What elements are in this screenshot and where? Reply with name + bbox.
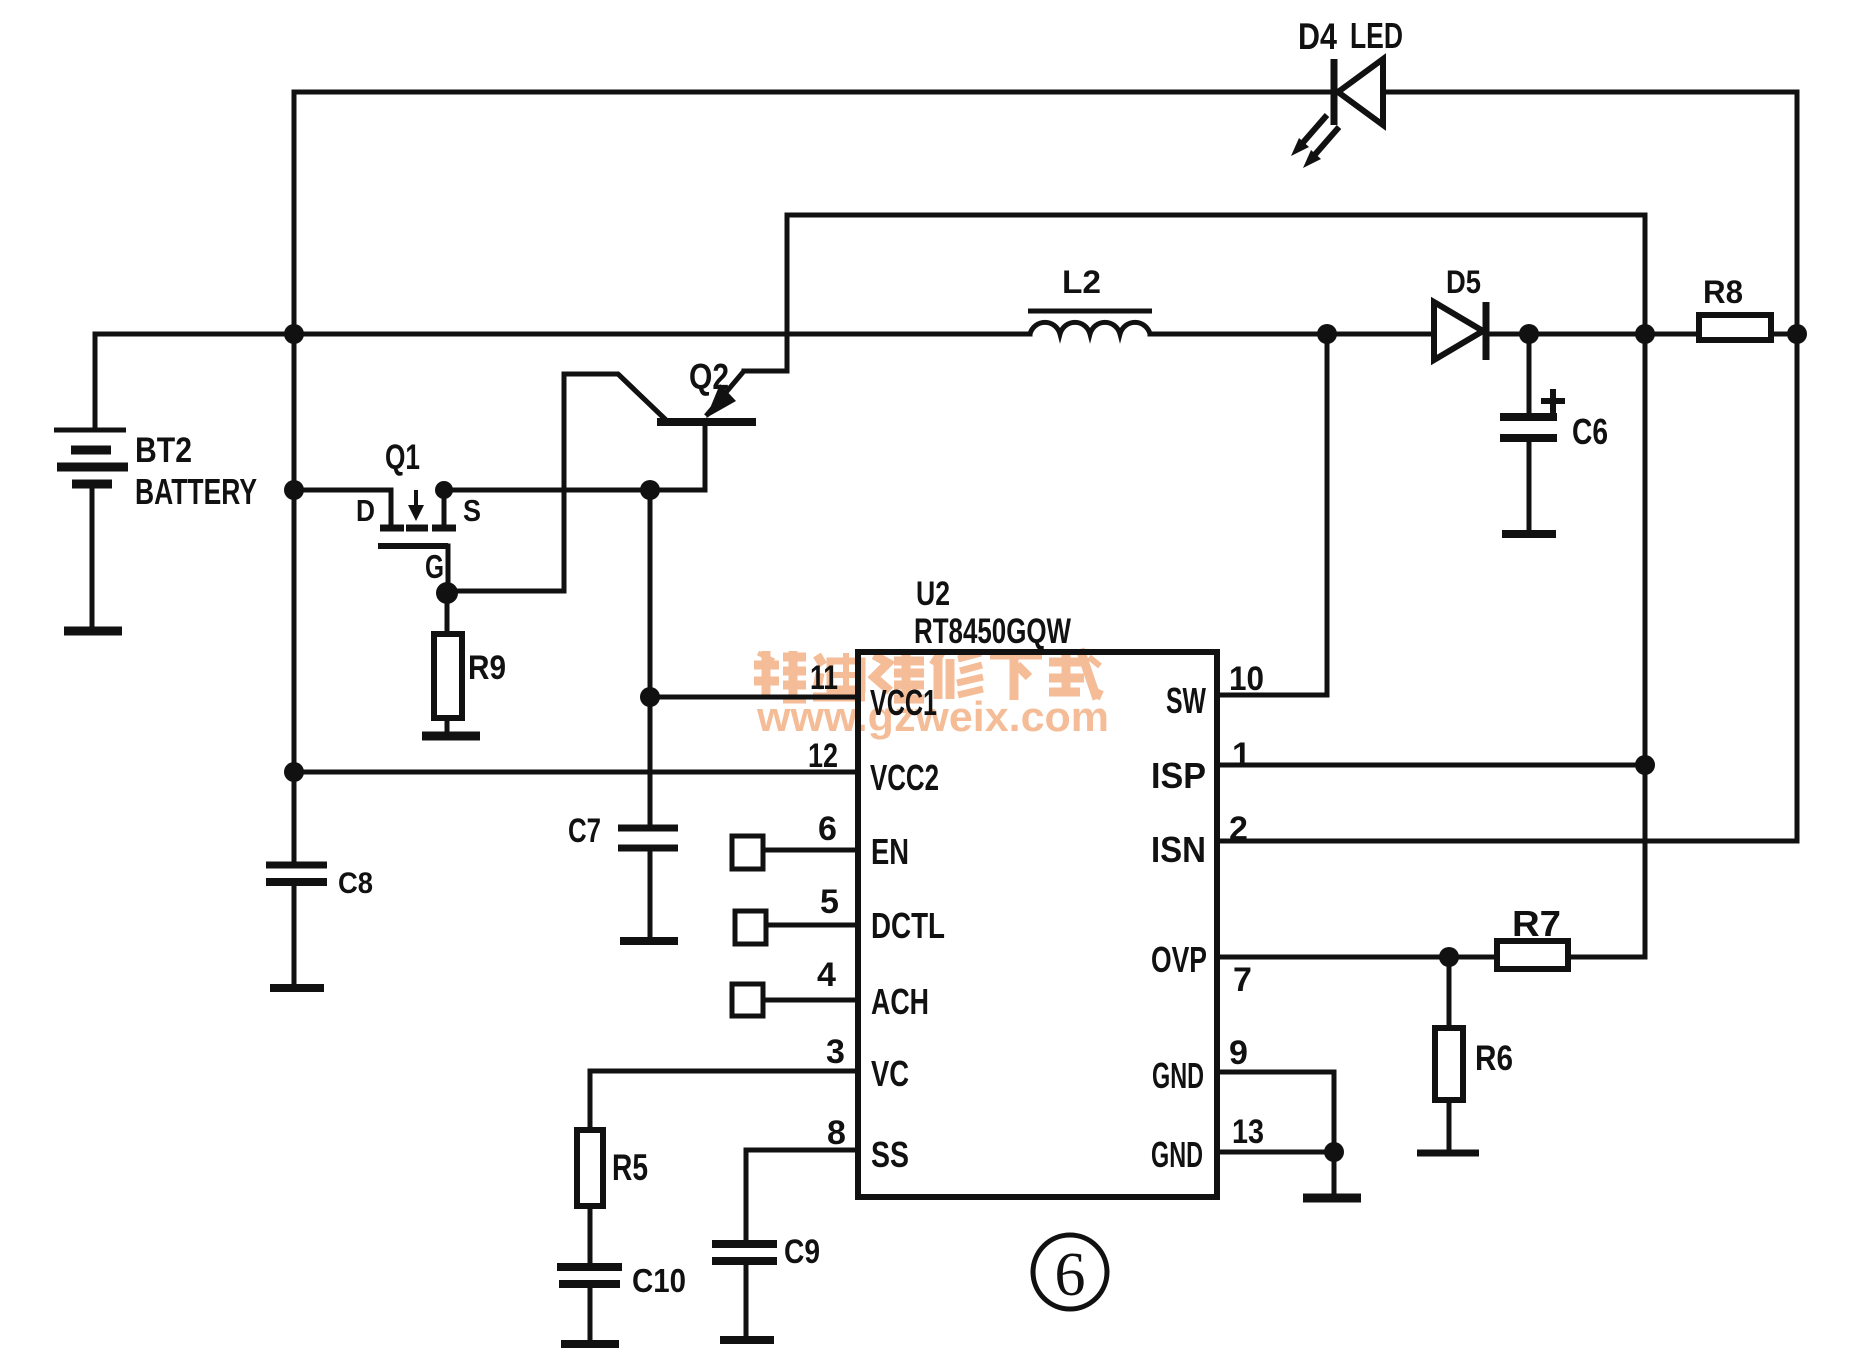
wire GND pin 9 horizontal <box>1217 1070 1334 1075</box>
battery BT2 <box>54 430 128 484</box>
wire R6 to ground <box>1447 1100 1452 1151</box>
junction battery feed / Q1 drain <box>284 480 304 500</box>
wire VCC2 node to C8 <box>292 772 297 862</box>
wire OVP node to R6 <box>1447 957 1452 1028</box>
junction OVP / R6 <box>1439 947 1459 967</box>
junction bus/left vertical <box>284 324 304 344</box>
svg-text:ACH: ACH <box>871 981 929 1022</box>
LED D4 <box>1291 59 1383 168</box>
resistor R6 <box>1435 1028 1463 1100</box>
svg-text:LED: LED <box>1350 15 1403 56</box>
wire DCTL pin 5 <box>766 923 858 928</box>
transistor Q1 (MOSFET) <box>378 490 456 546</box>
wire top rail right segment <box>1383 90 1797 95</box>
wire C7 to ground <box>648 851 653 938</box>
wire SS to C9 <box>744 1150 749 1241</box>
junction Q1 gate node <box>436 582 458 604</box>
svg-text:R8: R8 <box>1703 274 1743 310</box>
wire gate node to R9 <box>445 593 450 634</box>
wire C9 to ground <box>744 1264 749 1337</box>
ground (GND pins 9/13) <box>1303 1194 1361 1203</box>
wire R5 to C10 <box>588 1206 593 1264</box>
svg-text:BATTERY: BATTERY <box>135 471 257 512</box>
wire Q2 emitter horizontal <box>744 369 787 374</box>
capacitor C8 <box>266 865 327 882</box>
svg-text:C10: C10 <box>632 1262 686 1299</box>
watermark char 3 <box>874 653 924 699</box>
wire C6 bottom lead <box>1527 441 1532 532</box>
svg-text:L2: L2 <box>1062 264 1101 300</box>
resistor R5 <box>577 1130 603 1206</box>
junction bus / SW riser <box>1317 324 1337 344</box>
inductor L2 <box>1028 311 1152 334</box>
wire battery positive lead <box>93 334 98 428</box>
junction bus / C6 <box>1519 324 1539 344</box>
wire VCC1 node vertical (S node to C7) <box>648 490 653 826</box>
wire GND pin 9 drop <box>1332 1072 1337 1152</box>
capacitor C6 (polarized) <box>1500 389 1565 438</box>
svg-text:12: 12 <box>808 737 838 775</box>
capacitor C7 <box>618 828 678 848</box>
transistor Q2 (PNP) <box>618 371 756 422</box>
ground (C9) <box>720 1336 774 1344</box>
wire bus D5 to R8 <box>1488 332 1699 337</box>
wire Q2 collector to Q1 gate <box>447 374 666 591</box>
connector square ACH <box>732 984 763 1016</box>
wire bus L2 to D5 <box>1150 332 1434 337</box>
wire C6 top lead <box>1527 334 1532 414</box>
svg-text:D: D <box>356 493 375 528</box>
svg-text:C9: C9 <box>784 1233 820 1271</box>
junction Q1 source <box>435 481 453 499</box>
wire SW pin 10 horizontal <box>1217 693 1327 698</box>
svg-text:SW: SW <box>1166 680 1206 721</box>
svg-text:ISP: ISP <box>1151 755 1206 796</box>
IC U2 body <box>858 652 1217 1197</box>
svg-text:C8: C8 <box>338 867 373 900</box>
svg-text:VCC2: VCC2 <box>870 757 939 798</box>
wire GND pin 13 horizontal <box>1217 1150 1334 1155</box>
svg-text:DCTL: DCTL <box>871 905 945 946</box>
svg-text:C7: C7 <box>568 812 601 850</box>
svg-text:SS: SS <box>871 1134 909 1175</box>
junction ISP / vertical <box>1635 755 1655 775</box>
svg-text:7: 7 <box>1233 961 1252 999</box>
battery BT2 end bar <box>64 627 122 636</box>
junction S-wire / VCC1 branch <box>640 480 660 500</box>
svg-text:5: 5 <box>820 883 839 921</box>
svg-text:EN: EN <box>871 831 909 872</box>
wire VC pin 3 horizontal <box>590 1069 858 1074</box>
wire top rail left segment <box>294 90 1334 95</box>
junction GND pins <box>1324 1142 1344 1162</box>
svg-text:4: 4 <box>817 956 836 994</box>
wire battery negative lead <box>90 487 95 629</box>
svg-text:13: 13 <box>1232 1113 1264 1151</box>
wire VCC2 pin 12 horizontal <box>294 770 858 775</box>
wire VCC1 pin 11 horizontal <box>650 695 858 700</box>
svg-text:R9: R9 <box>468 649 506 687</box>
wire SS pin 8 horizontal <box>746 1148 858 1153</box>
svg-text:GND: GND <box>1151 1134 1203 1175</box>
connector square DCTL <box>735 911 766 944</box>
svg-text:6: 6 <box>818 810 837 848</box>
svg-text:S: S <box>463 493 481 528</box>
svg-text:VCC1: VCC1 <box>870 682 937 723</box>
svg-text:ISN: ISN <box>1151 829 1206 870</box>
wire OVP pin 7 horizontal <box>1217 955 1497 960</box>
resistor R9 <box>434 634 462 718</box>
watermark char 1 <box>754 651 806 699</box>
watermark char 6 <box>1049 649 1101 699</box>
svg-text:11: 11 <box>810 659 838 697</box>
ground (R9) <box>422 732 480 741</box>
svg-text:Q1: Q1 <box>385 438 420 477</box>
junction bus / second rail vertical <box>1635 324 1655 344</box>
watermark char 5 <box>990 655 1042 700</box>
wire GND node to ground <box>1332 1152 1337 1194</box>
wire SW riser to bus <box>1325 334 1330 695</box>
svg-text:10: 10 <box>1229 660 1264 698</box>
svg-text:GND: GND <box>1152 1055 1204 1096</box>
svg-text:D4: D4 <box>1298 16 1337 57</box>
svg-text:BT2: BT2 <box>135 431 192 470</box>
wire ACH pin 4 <box>763 998 858 1003</box>
diode D5 <box>1434 302 1486 360</box>
svg-text:6: 6 <box>1055 1241 1086 1309</box>
wire ISN pin 2 horizontal <box>1217 839 1797 844</box>
connector square EN <box>732 836 763 869</box>
resistor R7 <box>1497 941 1568 969</box>
svg-text:D5: D5 <box>1446 264 1481 300</box>
wire main bus battery to L2 <box>95 332 1030 337</box>
wire VC to R5 <box>588 1071 593 1130</box>
ground (C8) <box>270 984 324 992</box>
wire Q2 emitter vertical riser <box>785 215 790 371</box>
svg-text:RT8450GQW: RT8450GQW <box>914 612 1071 651</box>
capacitor C9 <box>712 1244 777 1261</box>
ground (C7) <box>620 937 678 945</box>
wire Q1 source to Q2 base <box>444 488 705 493</box>
watermark char 4 <box>933 651 983 699</box>
resistor R8 <box>1699 315 1771 340</box>
wire left vertical (top rail to VCC2 node) <box>292 92 297 772</box>
wire bus R8 to right node <box>1771 332 1797 337</box>
wire C8 to ground <box>292 885 297 985</box>
svg-text:9: 9 <box>1229 1034 1248 1072</box>
wire EN pin 6 <box>763 848 858 853</box>
svg-text:G: G <box>425 548 444 585</box>
junction VCC1 pin wire <box>640 687 660 707</box>
svg-text:Q2: Q2 <box>689 356 729 397</box>
svg-text:U2: U2 <box>916 575 950 613</box>
wire second rail right vertical (to ISP / R7) <box>1643 215 1648 957</box>
svg-text:8: 8 <box>827 1114 846 1152</box>
wire Q1 drain from node <box>294 488 391 493</box>
watermark char 2 <box>813 653 865 697</box>
svg-text:C6: C6 <box>1572 411 1608 452</box>
wire Q1 gate lead vertical <box>446 546 451 593</box>
ground (R6) <box>1417 1150 1479 1157</box>
capacitor C10 <box>557 1267 622 1284</box>
wire second rail horizontal <box>787 213 1645 218</box>
figure number circle <box>1033 1235 1107 1309</box>
wire ISP pin 1 horizontal <box>1217 763 1645 768</box>
wire R7 right to vertical <box>1568 955 1645 960</box>
svg-text:R5: R5 <box>612 1147 648 1188</box>
junction bus / right edge <box>1787 324 1807 344</box>
WATERMARK <box>754 649 1109 740</box>
wire C10 to ground <box>588 1287 593 1341</box>
wire Q2 base lead vertical <box>703 425 708 490</box>
ground (C6) <box>1502 530 1556 538</box>
svg-text:R7: R7 <box>1512 903 1561 944</box>
svg-text:R6: R6 <box>1475 1039 1513 1078</box>
ground (C10) <box>561 1340 619 1348</box>
wire R9 to ground <box>445 718 450 733</box>
wire right-edge vertical (top rail to ISN) <box>1795 92 1800 841</box>
svg-text:3: 3 <box>826 1033 845 1071</box>
svg-text:OVP: OVP <box>1151 939 1207 980</box>
junction VCC2 node <box>284 762 304 782</box>
svg-text:2: 2 <box>1229 810 1248 848</box>
svg-text:VC: VC <box>871 1053 909 1094</box>
svg-text:1: 1 <box>1232 736 1251 774</box>
